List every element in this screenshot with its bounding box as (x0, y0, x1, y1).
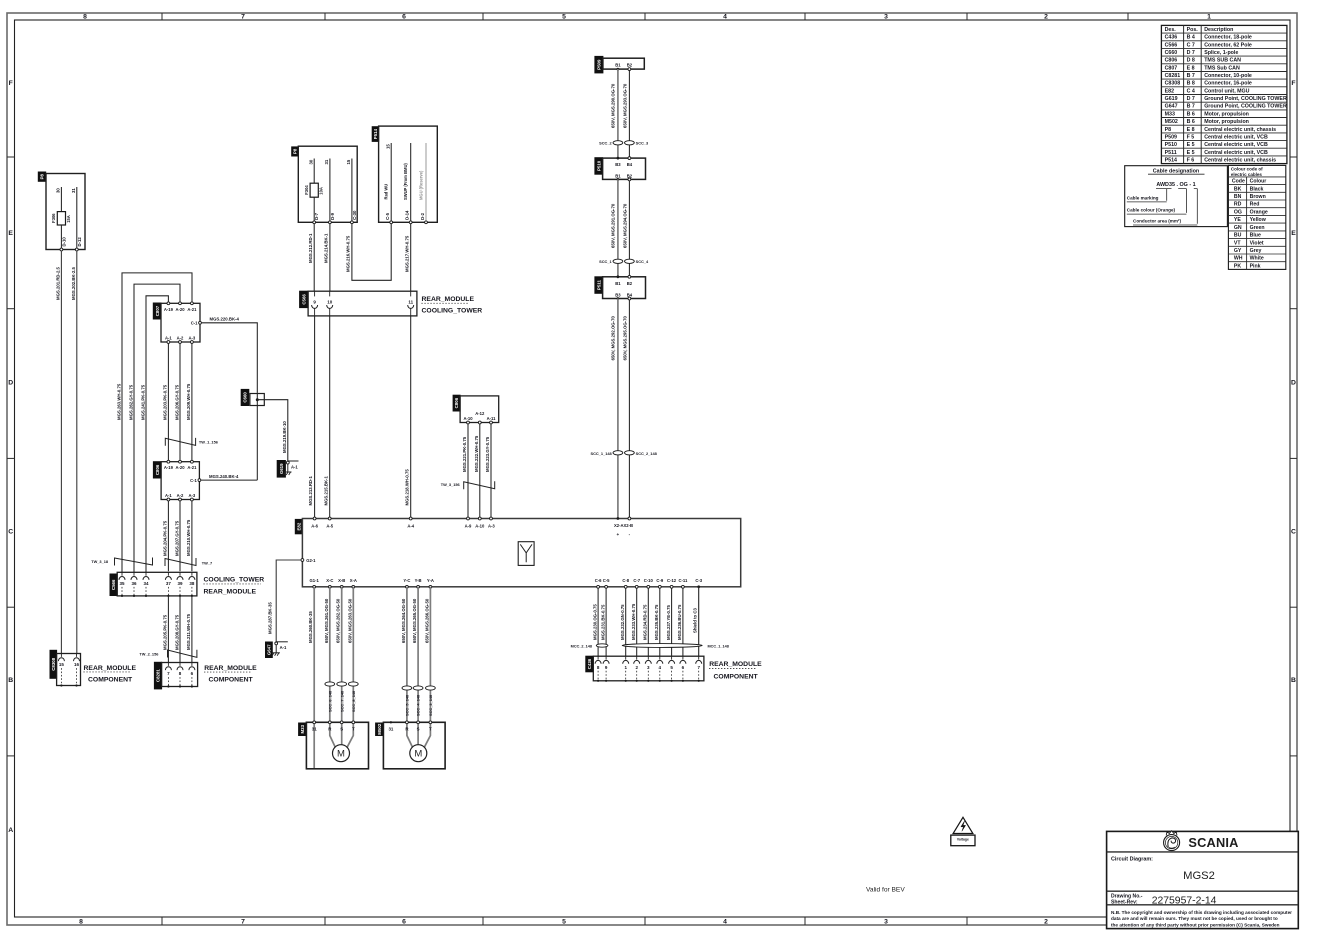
splice SCC_8_148 (348, 682, 358, 686)
svg-text:D-2: D-2 (420, 212, 425, 220)
svg-text:2275957-2-14: 2275957-2-14 (1152, 896, 1217, 907)
M502 motor symbol (410, 745, 427, 762)
svg-text:C807: C807 (155, 305, 160, 316)
svg-text:GY: GY (1234, 248, 1242, 254)
svg-text:Cable designation: Cable designation (1153, 168, 1199, 174)
svg-text:MGS.287.BK-35: MGS.287.BK-35 (268, 602, 273, 634)
E82 top pins A-6 A-5 A-4 (313, 517, 316, 520)
svg-text:5: 5 (562, 919, 566, 926)
svg-text:A-10: A-10 (475, 524, 485, 529)
svg-text:D: D (8, 379, 13, 386)
central electric unit P8 (chassis, left) (38, 172, 45, 181)
svg-text:SCC_2_148: SCC_2_148 (636, 451, 658, 456)
svg-text:MGS.235.BK-0.75: MGS.235.BK-0.75 (654, 604, 659, 640)
svg-text:VT: VT (1234, 240, 1241, 246)
svg-text:D-12: D-12 (77, 237, 82, 247)
wire 650V MGS.261.OG-50 X-C to M33:R (330, 587, 336, 748)
svg-text:P510: P510 (1165, 142, 1177, 148)
svg-text:10A: 10A (319, 187, 324, 195)
svg-text:SCC_6_148: SCC_6_148 (327, 690, 332, 712)
svg-text:A-20: A-20 (175, 465, 185, 470)
motor M502 propulsion (376, 723, 384, 736)
svg-text:C806: C806 (1165, 58, 1178, 64)
svg-text:WH: WH (1234, 256, 1243, 262)
svg-text:E 5: E 5 (1187, 142, 1195, 148)
svg-text:B2: B2 (627, 63, 633, 68)
svg-text:D-7: D-7 (314, 212, 319, 220)
svg-text:MGS.206.GY-0.75: MGS.206.GY-0.75 (174, 384, 179, 420)
svg-text:MGS.260.BK-35: MGS.260.BK-35 (308, 611, 313, 643)
svg-text:S: S (417, 726, 420, 731)
svg-text:C-5: C-5 (385, 212, 390, 220)
svg-text:C-5: C-5 (603, 578, 610, 583)
pin D-10 (60, 248, 63, 251)
svg-text:Control unit, MGU: Control unit, MGU (1204, 88, 1249, 94)
svg-text:SCC_7_148: SCC_7_148 (339, 690, 344, 712)
splice SCC_4_148 (413, 686, 423, 690)
cable designation legend (1125, 166, 1228, 227)
P514 line Rad WU (390, 143, 392, 222)
svg-text:BU: BU (1234, 233, 1242, 239)
warning symbol high voltage (953, 817, 973, 833)
svg-text:A-21: A-21 (187, 465, 197, 470)
M33 motor symbol (333, 745, 350, 762)
svg-text:TMS Sub CAN: TMS Sub CAN (1204, 65, 1240, 71)
wire 650V MGS.292.OG-70 to E82 (617, 299, 619, 519)
svg-text:650V, MGS.293.OG-70: 650V, MGS.293.OG-70 (623, 83, 628, 128)
shield wire to C3 (698, 587, 700, 656)
splice SCC_2 (613, 141, 623, 145)
wire 650V MGS.265.OG-50 Y-B to M502:S (417, 587, 419, 745)
svg-text:Sheet-Rev:: Sheet-Rev: (1111, 899, 1138, 905)
svg-text:D-14: D-14 (405, 210, 410, 220)
svg-text:M502: M502 (1165, 119, 1178, 125)
splice C660 1-pole (256, 392, 258, 480)
svg-text:650V, MGS.294.OG-70: 650V, MGS.294.OG-70 (623, 203, 628, 248)
wire 650V MGS.293.OG-70 (628, 71, 630, 159)
svg-text:F 6: F 6 (1187, 158, 1195, 164)
P514 line SWUP (From BMU) (410, 143, 412, 222)
connector C8308 16-pole (50, 650, 57, 678)
svg-text:MGS.231.BK-0.75: MGS.231.BK-0.75 (600, 604, 605, 640)
svg-text:COMPONENT: COMPONENT (88, 676, 133, 683)
splice SCC_1_148 (613, 451, 623, 455)
svg-text:TW_3_18: TW_3_18 (91, 559, 109, 564)
svg-text:39: 39 (177, 581, 183, 586)
svg-text:B4: B4 (627, 162, 633, 167)
svg-text:MGS.233.WH-0.75: MGS.233.WH-0.75 (631, 603, 636, 640)
svg-text:G647: G647 (1165, 104, 1178, 110)
svg-text:F306: F306 (51, 213, 56, 223)
svg-text:Central electric unit, VCB: Central electric unit, VCB (1204, 142, 1268, 148)
svg-text:B3: B3 (615, 162, 621, 167)
svg-text:REAR_MODULE: REAR_MODULE (204, 665, 257, 672)
svg-text:Green: Green (1250, 225, 1265, 231)
svg-text:B 7: B 7 (1187, 73, 1195, 79)
central electric unit P511 (VCB) (595, 277, 603, 294)
wire MGS.260.BK-35 G1-1 to M33:31 (313, 587, 315, 769)
svg-text:TMS SUB CAN: TMS SUB CAN (1204, 58, 1241, 64)
svg-text:E82: E82 (297, 522, 302, 530)
svg-text:Central electric unit, VCB: Central electric unit, VCB (1204, 134, 1268, 140)
svg-text:MGS.213.RD-1: MGS.213.RD-1 (308, 476, 313, 506)
svg-text:MGU (Reserve): MGU (Reserve) (418, 170, 423, 200)
svg-text:TW_1_156: TW_1_156 (199, 440, 219, 445)
svg-text:10: 10 (327, 299, 333, 304)
central electric unit P8 (chassis, middle) (292, 147, 299, 156)
svg-text:MGS.219.BK-10: MGS.219.BK-10 (282, 421, 287, 453)
component list table (1161, 25, 1287, 163)
svg-text:SCC_5_148: SCC_5_148 (405, 694, 410, 716)
svg-text:C806: C806 (454, 397, 459, 408)
svg-text:E 8: E 8 (1187, 127, 1195, 133)
svg-text:Valid for BEV: Valid for BEV (866, 887, 905, 894)
svg-text:MGS.217.WH-0.75: MGS.217.WH-0.75 (404, 235, 409, 272)
svg-text:MGS.237.YE-0.75: MGS.237.YE-0.75 (666, 605, 671, 640)
pin D-9 (329, 221, 332, 224)
svg-text:E82: E82 (1165, 88, 1174, 94)
svg-text:M: M (337, 749, 345, 760)
colour code table (1228, 165, 1285, 269)
svg-text:8: 8 (83, 14, 87, 21)
svg-text:MGS.208.GY-0.75: MGS.208.GY-0.75 (174, 614, 179, 650)
control unit E82 MGU (295, 519, 302, 533)
svg-text:X2-AX2-B: X2-AX2-B (614, 523, 633, 528)
svg-text:X-B: X-B (338, 578, 345, 583)
svg-text:B 6: B 6 (1187, 119, 1195, 125)
svg-text:MGS.218.WH-0.75: MGS.218.WH-0.75 (404, 469, 409, 506)
svg-text:Brown: Brown (1250, 194, 1266, 200)
svg-text:COOLING_TOWER: COOLING_TOWER (422, 308, 483, 315)
svg-text:B 8: B 8 (1187, 81, 1195, 87)
svg-text:F: F (9, 80, 13, 87)
svg-text:B2: B2 (627, 173, 633, 178)
svg-text:3: 3 (884, 14, 888, 21)
svg-text:C 4: C 4 (1187, 88, 1195, 94)
svg-text:D: D (1291, 379, 1296, 386)
svg-text:Motor, propulsion: Motor, propulsion (1204, 111, 1249, 117)
svg-text:Cable colour (Orange): Cable colour (Orange) (1127, 208, 1176, 213)
svg-text:G1-1: G1-1 (310, 578, 320, 583)
svg-text:A-2: A-2 (177, 336, 184, 341)
wires C806 to C566 (CAN pair) (167, 501, 169, 571)
svg-text:OG: OG (1234, 209, 1242, 215)
svg-text:6: 6 (402, 919, 406, 926)
svg-text:F 5: F 5 (1187, 134, 1195, 140)
svg-text:C8308: C8308 (51, 657, 56, 670)
scania griffin logo (1164, 831, 1180, 851)
svg-text:M502: M502 (377, 723, 382, 735)
svg-text:BK: BK (1234, 186, 1242, 192)
svg-text:Connector, 18-pole: Connector, 18-pole (1204, 35, 1252, 41)
splice MCC_2_148 (596, 644, 608, 647)
svg-text:C-1: C-1 (190, 478, 197, 483)
svg-text:30: 30 (56, 188, 61, 193)
svg-text:Cable marking: Cable marking (1127, 195, 1159, 200)
star point symbol (518, 542, 534, 566)
svg-text:B 6: B 6 (1187, 111, 1195, 117)
svg-text:A-3: A-3 (488, 524, 495, 529)
svg-text:B 7: B 7 (1187, 104, 1195, 110)
svg-text:A-1: A-1 (291, 464, 298, 469)
svg-text:G647: G647 (267, 644, 272, 655)
svg-text:A-1: A-1 (165, 493, 172, 498)
svg-text:7: 7 (241, 919, 245, 926)
svg-text:E 8: E 8 (1187, 65, 1195, 71)
svg-text:15A: 15A (66, 215, 71, 223)
svg-text:MGS.204.PK-0.75: MGS.204.PK-0.75 (163, 520, 168, 556)
wire MGS.240.BK-4 C806:C-1 to splice C660 (201, 479, 257, 481)
svg-text:MGS.240.BK-4: MGS.240.BK-4 (209, 474, 239, 479)
wire MGS.262.GY-0.75 loop to C807 A-20 (134, 284, 180, 572)
svg-text:C660: C660 (243, 392, 248, 403)
svg-text:15: 15 (385, 144, 390, 149)
splice MCC_1_148 (622, 644, 702, 648)
svg-text:C566: C566 (111, 579, 116, 590)
svg-text:REAR_MODULE: REAR_MODULE (204, 589, 257, 596)
svg-text:B 4: B 4 (1187, 35, 1195, 41)
connector C806 (second view) (453, 395, 460, 411)
svg-text:C8308: C8308 (1165, 81, 1181, 87)
wires C566 to C8281 (167, 596, 169, 663)
wire MGS.214.BK-1 to C566:10 (329, 224, 331, 292)
svg-text:C436: C436 (587, 658, 592, 669)
svg-text:B1: B1 (615, 63, 621, 68)
pin D-12 (75, 248, 78, 251)
svg-text:Y-A: Y-A (427, 578, 434, 583)
svg-text:MGS.232.GN-0.75: MGS.232.GN-0.75 (620, 604, 625, 640)
splice SCC_3_148 (426, 686, 436, 690)
svg-text:35: 35 (119, 581, 125, 586)
svg-text:A-5: A-5 (326, 524, 333, 529)
svg-text:Y-B: Y-B (415, 578, 422, 583)
splice SCC_5_148 (402, 686, 412, 690)
pin C-1 of C806 (198, 479, 201, 482)
svg-text:G619: G619 (1165, 96, 1178, 102)
wire 650V MGS.266.OG-50 Y-A to M502:T (424, 587, 430, 748)
E82 pin C-3 (shield) (697, 585, 700, 588)
svg-text:C566: C566 (1165, 42, 1178, 48)
svg-text:G619: G619 (279, 463, 284, 474)
twisted-pair symbol TW_2_156 (168, 650, 197, 658)
svg-text:Blue: Blue (1250, 233, 1261, 239)
connector C566 (cooling tower side) (110, 574, 117, 596)
pin 31 lead (76, 187, 78, 250)
svg-text:31: 31 (388, 726, 393, 731)
pin C-1 of C807 (199, 321, 202, 324)
svg-text:data are and will remain ours.: data are and will remain ours. They must… (1111, 916, 1278, 921)
svg-text:15: 15 (59, 662, 65, 667)
svg-text:650V, MGS.263.OG-50: 650V, MGS.263.OG-50 (347, 598, 352, 643)
svg-text:C-12: C-12 (667, 578, 677, 583)
svg-text:P509: P509 (597, 59, 602, 70)
svg-text:3: 3 (884, 919, 888, 926)
svg-text:MGS.230.OG-0.75: MGS.230.OG-0.75 (592, 604, 597, 640)
wire MGS.219.BK-10 to ground G619 (257, 400, 288, 461)
svg-text:MGS.209.WH-0.75: MGS.209.WH-0.75 (186, 383, 191, 420)
svg-text:C: C (1291, 528, 1296, 535)
svg-text:F: F (1291, 80, 1295, 87)
svg-text:Red: Red (1250, 202, 1260, 208)
wire MGS.213.RD-1 to E82:A-6 (314, 316, 316, 519)
svg-text:C-11: C-11 (678, 578, 688, 583)
svg-text:650V, MGS.264.OG-50: 650V, MGS.264.OG-50 (401, 598, 406, 643)
svg-text:E: E (1291, 230, 1296, 237)
svg-text:7: 7 (241, 14, 245, 21)
svg-text:A-1: A-1 (165, 336, 172, 341)
svg-text:MGS.203.PK-0.75: MGS.203.PK-0.75 (163, 384, 168, 420)
svg-text:P8: P8 (1165, 127, 1172, 133)
svg-text:E: E (8, 230, 13, 237)
svg-text:C807: C807 (1165, 65, 1178, 71)
svg-text:650V, MGS.265.OG-50: 650V, MGS.265.OG-50 (412, 598, 417, 643)
svg-text:TW_7: TW_7 (202, 561, 212, 566)
svg-text:Des.: Des. (1165, 27, 1177, 33)
svg-text:30: 30 (308, 159, 313, 164)
svg-text:SCANIA: SCANIA (1188, 835, 1238, 850)
E82 top pins A-9 A-10 A-3 (467, 517, 470, 520)
svg-text:Motor, propulsion: Motor, propulsion (1204, 119, 1249, 125)
E82 bottom pins (313, 585, 316, 588)
svg-text:C436: C436 (1165, 35, 1178, 41)
E82 DC input X2-AX2-B (617, 517, 620, 520)
splice SCC_3 (625, 141, 635, 145)
connector C566 (rear module side) (300, 291, 309, 307)
svg-text:Ground Point, COOLING TOWER: Ground Point, COOLING TOWER (1204, 104, 1287, 110)
motor M33 propulsion (299, 723, 307, 736)
svg-text:Conductor area (mm²): Conductor area (mm²) (1133, 218, 1181, 223)
svg-text:MGS.236.BU-0.75: MGS.236.BU-0.75 (677, 604, 682, 640)
svg-text:A-11: A-11 (487, 416, 497, 421)
svg-text:Central electric unit, chassis: Central electric unit, chassis (1204, 127, 1276, 133)
svg-text:Shield to C3: Shield to C3 (693, 608, 698, 633)
svg-text:MGS2: MGS2 (1183, 870, 1215, 882)
svg-text:MGS.212.RD-1: MGS.212.RD-1 (308, 233, 313, 263)
svg-text:Connector, 62 Pole: Connector, 62 Pole (1204, 42, 1252, 48)
svg-text:A-19: A-19 (164, 465, 174, 470)
wire MGS.216.WH-0.75 P8:C-30 to P514:C-5 (352, 224, 391, 281)
svg-text:B3: B3 (615, 292, 621, 297)
svg-text:C 7: C 7 (1187, 42, 1195, 48)
connector C436 18-pole (586, 656, 594, 672)
svg-text:31: 31 (312, 726, 317, 731)
wire MGS.218.WH-0.75 to E82:A-4 (410, 316, 412, 519)
wire 650V MGS.291.OG-70 (617, 179, 619, 276)
svg-text:MGS.216.WH-0.75: MGS.216.WH-0.75 (346, 235, 351, 272)
wire MGS.220.BK-4 C807:C-1 to splice C660 (201, 323, 257, 392)
fuse F306 15A (57, 212, 65, 225)
signal wires E82 to C436 (597, 588, 599, 656)
pin 31 lead (329, 159, 331, 223)
svg-text:Voltage: Voltage (957, 837, 969, 841)
svg-text:A-3: A-3 (189, 336, 196, 341)
svg-text:A: A (8, 827, 13, 834)
splice SCC_4 (625, 259, 635, 263)
pin 30 lead (60, 187, 62, 212)
svg-text:C: C (8, 528, 13, 535)
svg-text:White: White (1250, 256, 1264, 262)
svg-text:MGS.223.GY-0.75: MGS.223.GY-0.75 (485, 436, 490, 472)
svg-text:Black: Black (1250, 186, 1264, 192)
svg-text:650V, MGS.262.OG-50: 650V, MGS.262.OG-50 (336, 598, 341, 643)
svg-text:SCC_8_148: SCC_8_148 (351, 690, 356, 712)
svg-text:RD: RD (1234, 202, 1242, 208)
svg-text:Y-C: Y-C (403, 578, 410, 583)
svg-text:REAR_MODULE: REAR_MODULE (709, 661, 762, 668)
svg-text:X-C: X-C (326, 578, 333, 583)
twisted-pair symbol TW_7 (165, 558, 196, 566)
wire 650V MGS.262.OG-50 X-B to M33:S (341, 587, 343, 745)
pin 30 lead with fuse F304 10A (313, 159, 315, 184)
svg-text:MGS.220.BK-4: MGS.220.BK-4 (210, 317, 240, 322)
svg-text:B2: B2 (627, 281, 633, 286)
svg-text:C806: C806 (155, 464, 160, 475)
svg-text:G2-1: G2-1 (306, 558, 316, 563)
svg-text:11: 11 (408, 299, 413, 304)
wire MGS.215.BK-1 to E82:A-5 (329, 316, 331, 519)
svg-text:SCC_3: SCC_3 (636, 141, 649, 146)
svg-text:MCC_1_148: MCC_1_148 (708, 644, 729, 648)
wire MGS.221.PK-0.75 to E82:A-9 (467, 424, 469, 519)
wire 650V MGS.263.OG-50 X-A to M33:T (347, 587, 353, 748)
twisted-pair symbol TW_3_18 (115, 558, 153, 566)
svg-text:P510: P510 (596, 160, 601, 171)
svg-text:T: T (429, 726, 432, 731)
svg-text:Central electric unit, chassis: Central electric unit, chassis (1204, 158, 1276, 164)
M502 pin 31 (unconnected) (390, 721, 392, 723)
wire 650V MGS.295.OG-70 to E82 (628, 300, 630, 519)
svg-text:SCC_1_148: SCC_1_148 (590, 451, 612, 456)
svg-text:37: 37 (166, 581, 172, 586)
svg-text:MCC_2_148: MCC_2_148 (571, 644, 592, 648)
svg-text:SCC_4_148: SCC_4_148 (416, 694, 421, 716)
svg-text:+: + (617, 532, 620, 537)
svg-text:A-3: A-3 (189, 493, 196, 498)
svg-text:650V, MGS.261.OG-50: 650V, MGS.261.OG-50 (324, 598, 329, 643)
svg-text:2: 2 (1044, 14, 1048, 21)
pin D-2 (425, 221, 428, 224)
svg-text:COOLING_TOWER: COOLING_TOWER (204, 577, 265, 584)
connector C8281 10-pole (154, 662, 161, 689)
svg-text:REAR_MODULE: REAR_MODULE (84, 665, 137, 672)
svg-text:M33: M33 (300, 724, 305, 733)
svg-text:MGS.201.RD-2.5: MGS.201.RD-2.5 (56, 266, 61, 300)
svg-text:A-20: A-20 (175, 307, 185, 312)
svg-text:650V, MGS.266.OG-50: 650V, MGS.266.OG-50 (424, 598, 429, 643)
wire MGS.287.BK-35 G2-1 to G647 (276, 560, 301, 642)
svg-text:MGS.211.WH-0.75: MGS.211.WH-0.75 (186, 613, 191, 650)
svg-text:Description: Description (1204, 27, 1233, 33)
svg-text:B: B (8, 677, 13, 684)
svg-text:Code: Code (1232, 179, 1245, 185)
svg-text:Pink: Pink (1250, 263, 1261, 269)
svg-text:A-2: A-2 (177, 493, 184, 498)
svg-text:P8: P8 (293, 148, 298, 154)
svg-text:650V, MGS.290.OG-70: 650V, MGS.290.OG-70 (611, 83, 616, 128)
svg-text:M33: M33 (1165, 111, 1175, 117)
svg-text:SCC_4: SCC_4 (636, 259, 649, 264)
svg-text:34: 34 (143, 581, 149, 586)
svg-text:A-9: A-9 (465, 524, 472, 529)
ground point G647 (266, 642, 273, 658)
svg-text:Rad WU: Rad WU (384, 184, 389, 200)
svg-text:MGS.262.GY-0.75: MGS.262.GY-0.75 (128, 384, 133, 420)
wire MGS.202.BK-2.5 to C8308:16 (76, 251, 78, 654)
svg-text:T: T (352, 726, 355, 731)
wire MGS.201.RD-2.5 to C8308:15 (60, 251, 62, 654)
E82 pin G2-1 (301, 559, 304, 562)
svg-text:A-21: A-21 (187, 307, 197, 312)
